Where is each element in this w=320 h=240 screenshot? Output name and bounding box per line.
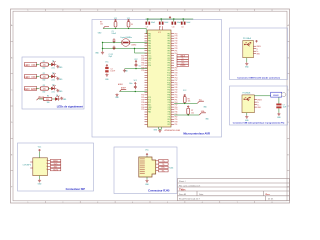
svg-text:R3: R3 — [43, 85, 45, 87]
wire SCL — [174, 102, 197, 104]
resistor R2 330 — [40, 75, 48, 78]
junction — [115, 28, 116, 29]
svg-text:TX+: TX+ — [162, 160, 165, 162]
power VCC — [146, 153, 148, 156]
op-amp U1 body (microcontroller ATMEGA2560) — [148, 30, 172, 127]
wire AREF — [120, 91, 148, 93]
svg-text:GND: GND — [148, 107, 151, 109]
junction — [183, 18, 184, 19]
svg-text:PE4: PE4 — [167, 43, 170, 45]
svg-text:PB0: PB0 — [148, 33, 151, 35]
section box: Connecteur USB male — [230, 86, 288, 125]
svg-text:RJ45: RJ45 — [169, 168, 173, 170]
svg-text:Sheet: /: Sheet: / — [179, 180, 186, 183]
svg-text:PC6: PC6 — [148, 99, 151, 101]
net label SCK — [50, 162, 60, 164]
svg-text:P97: P97 — [141, 60, 144, 62]
svg-text:C11: C11 — [181, 26, 184, 28]
title block — [178, 179, 290, 201]
svg-text:P00: P00 — [141, 107, 144, 109]
svg-text:D1: D1 — [52, 61, 54, 63]
svg-text:PB4: PB4 — [148, 43, 151, 45]
capacitor C9 100nF — [159, 22, 161, 25]
junction — [184, 103, 185, 104]
resistor R6 10k — [183, 97, 186, 103]
svg-text:PE5: PE5 — [167, 46, 170, 48]
capacitor C5 100nF — [135, 63, 138, 67]
net label D- — [177, 57, 188, 59]
svg-text:PH0: PH0 — [167, 85, 170, 87]
svg-text:LED_OK2: LED_OK2 — [24, 75, 38, 79]
svg-text:P73: P73 — [175, 109, 178, 111]
svg-text:P55: P55 — [175, 46, 178, 48]
ground — [115, 93, 118, 96]
junction — [173, 18, 174, 19]
svg-text:Rev:: Rev: — [266, 194, 271, 196]
wire AVCC — [160, 26, 163, 30]
svg-text:Connecteur ISP: Connecteur ISP — [66, 187, 86, 191]
wire VCC bus — [146, 18, 194, 20]
net label RX- — [159, 170, 169, 172]
svg-text:C8: C8 — [146, 26, 148, 28]
svg-text:P84: P84 — [141, 63, 144, 65]
svg-text:PJ3: PJ3 — [168, 109, 171, 111]
svg-text:P55: P55 — [141, 95, 144, 97]
capacitor C1 22pF — [113, 38, 116, 42]
svg-text:MISO: MISO — [53, 160, 58, 162]
sheet link MEMO — [271, 92, 282, 97]
net flag SDA — [199, 113, 206, 115]
svg-text:P00: P00 — [175, 33, 178, 35]
LED D4 — [55, 97, 58, 101]
wire RESET — [103, 28, 148, 33]
svg-text:PB5: PB5 — [148, 46, 151, 48]
section box: Connecteur USB femelle — [230, 28, 288, 80]
junction — [188, 114, 189, 115]
capacitor C2 22pF — [113, 46, 116, 50]
svg-text:PF0: PF0 — [168, 53, 171, 55]
svg-text:PE1: PE1 — [167, 36, 170, 38]
svg-text:P46: P46 — [175, 38, 178, 40]
wire — [246, 58, 248, 62]
wire SDA — [174, 114, 199, 116]
svg-text:RST: RST — [148, 53, 151, 55]
LED D2 — [51, 75, 54, 79]
junction — [128, 28, 129, 29]
net label VBUS — [177, 55, 188, 57]
svg-text:16MHz: 16MHz — [131, 45, 136, 47]
capacitor C8 100nF — [146, 22, 148, 25]
svg-text:D3: D3 — [52, 85, 54, 87]
svg-text:PG0: PG0 — [167, 72, 170, 74]
svg-text:P73: P73 — [175, 36, 178, 38]
svg-text:100nF: 100nF — [164, 22, 168, 24]
svg-text:Crystal 16MHz: Crystal 16MHz — [120, 36, 132, 39]
ground — [56, 77, 59, 80]
svg-text:D4: D4 — [56, 95, 58, 97]
junction — [147, 18, 148, 19]
svg-text:PE7: PE7 — [167, 50, 170, 52]
svg-text:D+: D+ — [257, 104, 259, 106]
capacitor C7 10uF (polarized) — [276, 104, 281, 106]
svg-text:100nF: 100nF — [151, 22, 155, 24]
svg-text:P71: P71 — [141, 65, 144, 67]
svg-text:RX-: RX- — [162, 170, 166, 172]
junction — [161, 18, 162, 19]
junction — [135, 68, 136, 69]
svg-text:P26: P26 — [141, 102, 144, 104]
svg-text:C3: C3 — [112, 31, 114, 33]
section box: Microcontroleur AVR — [92, 20, 222, 138]
svg-text:UGND: UGND — [180, 65, 186, 67]
svg-text:330: 330 — [42, 68, 45, 70]
U1 gnd below — [159, 127, 162, 129]
connector P2 USB-A body — [243, 41, 254, 58]
svg-text:PJ1: PJ1 — [168, 104, 171, 106]
svg-text:XT2: XT2 — [148, 60, 151, 62]
svg-text:MOSI: MOSI — [53, 169, 58, 171]
svg-text:VBUS: VBUS — [257, 99, 261, 101]
svg-text:XT1: XT1 — [148, 63, 151, 65]
connector J1 RJ45 body — [139, 157, 156, 177]
wire — [36, 76, 39, 78]
svg-text:ATMEGA2560-16AU: ATMEGA2560-16AU — [165, 129, 181, 132]
ground — [56, 89, 59, 92]
power VCC — [39, 149, 41, 152]
capacitor C10 100nF — [172, 22, 174, 25]
svg-text:SCL: SCL — [199, 100, 203, 102]
wire — [147, 19, 149, 22]
svg-text:P55: P55 — [175, 119, 178, 121]
wire — [39, 176, 41, 179]
svg-text:330: 330 — [42, 92, 45, 94]
svg-text:VBUS: VBUS — [256, 46, 260, 48]
svg-text:P46: P46 — [175, 112, 178, 114]
svg-text:P28: P28 — [175, 121, 178, 123]
net label MOSI — [50, 168, 60, 170]
svg-text:330: 330 — [47, 102, 50, 104]
svg-text:P68: P68 — [141, 68, 144, 70]
svg-text:PB1: PB1 — [148, 36, 151, 38]
svg-text:PG2: PG2 — [167, 77, 170, 79]
wire — [39, 98, 44, 100]
svg-text:P19: P19 — [175, 41, 178, 43]
svg-text:330: 330 — [43, 64, 46, 66]
wire to XTAL2 pin — [135, 49, 148, 54]
svg-text:P91: P91 — [175, 99, 178, 101]
svg-text:PF4: PF4 — [168, 63, 171, 65]
svg-text:P00: P00 — [175, 107, 178, 109]
svg-text:PF5: PF5 — [168, 65, 171, 67]
svg-text:LED_OK1: LED_OK1 — [24, 63, 38, 67]
net label RX+ — [159, 166, 169, 168]
svg-text:PG3: PG3 — [167, 80, 170, 82]
ground — [60, 97, 63, 100]
P2 pins — [253, 46, 256, 54]
svg-text:P73: P73 — [175, 85, 178, 87]
resistor R7 10k — [187, 108, 190, 114]
crystal Q1 16MHz — [122, 39, 130, 47]
resistor R5 10k — [114, 22, 117, 27]
svg-text:GND: GND — [148, 58, 151, 60]
svg-text:PH5: PH5 — [167, 97, 170, 99]
svg-text:LED_ERR: LED_ERR — [24, 87, 38, 91]
svg-text:TX-: TX- — [162, 164, 165, 166]
net label TX+ — [159, 160, 169, 162]
wire — [160, 19, 162, 22]
svg-text:PB6: PB6 — [148, 48, 151, 50]
svg-text:RX+: RX+ — [161, 167, 165, 169]
section box: Connecteur RJ45 — [114, 147, 177, 194]
wire XTAL2 — [103, 48, 148, 50]
junction — [134, 48, 135, 49]
svg-text:100nF: 100nF — [112, 33, 117, 35]
svg-text:C1 C2: C1 C2 — [109, 54, 114, 56]
svg-text:PF2: PF2 — [168, 58, 171, 60]
svg-text:IC1: IC1 — [158, 32, 161, 34]
connector P1 CON ISP 6 body — [33, 158, 48, 176]
net flag SCL — [197, 101, 204, 103]
svg-text:PB2: PB2 — [148, 38, 151, 40]
svg-text:P46: P46 — [175, 87, 178, 89]
net label MISO — [50, 159, 60, 161]
junction — [102, 42, 103, 43]
junction — [113, 42, 114, 43]
svg-text:CON ISP 6: CON ISP 6 — [23, 164, 31, 166]
svg-text:PC5: PC5 — [148, 97, 151, 99]
svg-text:PF6: PF6 — [168, 68, 171, 70]
capacitor C6 100nF — [134, 85, 137, 89]
svg-text:PG4: PG4 — [167, 82, 170, 84]
ground — [145, 179, 148, 182]
svg-text:PH4: PH4 — [167, 95, 170, 97]
svg-text:PF7: PF7 — [168, 70, 171, 72]
svg-text:P13: P13 — [141, 104, 144, 106]
power VCC — [169, 16, 171, 19]
wire gnd stub — [102, 43, 104, 52]
svg-text:330: 330 — [46, 99, 49, 101]
wire — [182, 19, 184, 22]
svg-text:P39: P39 — [141, 99, 144, 101]
wire VBUS to cap — [254, 96, 279, 104]
svg-text:PD0: PD0 — [148, 65, 151, 67]
svg-text:10uF: 10uF — [283, 107, 287, 109]
svg-text:PK2: PK2 — [167, 124, 170, 126]
svg-text:Microcontroleur AVR: Microcontroleur AVR — [183, 131, 210, 135]
svg-text:PK1: PK1 — [167, 121, 170, 123]
ground — [38, 179, 41, 182]
net label UID — [177, 62, 188, 64]
svg-text:P82: P82 — [175, 43, 178, 45]
svg-text:330: 330 — [42, 80, 45, 82]
wire — [36, 88, 39, 90]
svg-text:PF1: PF1 — [168, 55, 171, 57]
wire — [125, 68, 148, 70]
svg-text:PH1: PH1 — [167, 87, 170, 89]
svg-text:PJ5: PJ5 — [168, 114, 171, 116]
svg-text:330: 330 — [43, 88, 46, 90]
wire — [49, 64, 52, 66]
svg-text:R2: R2 — [43, 73, 45, 75]
wire — [36, 64, 39, 66]
junction — [135, 91, 136, 92]
wire — [49, 76, 52, 78]
svg-text:D2: D2 — [52, 73, 54, 75]
wire — [53, 98, 55, 100]
USB trident symbol — [244, 43, 250, 46]
svg-text:P82: P82 — [175, 117, 178, 119]
svg-text:PB3: PB3 — [148, 41, 151, 43]
svg-text:PE0: PE0 — [167, 33, 170, 35]
svg-text:P97: P97 — [141, 109, 144, 111]
svg-text:PJ4: PJ4 — [168, 112, 171, 114]
wire — [39, 152, 41, 158]
svg-text:PH6: PH6 — [167, 99, 170, 101]
net label LED_OK2 — [25, 75, 37, 79]
svg-text:R4: R4 — [47, 95, 49, 97]
svg-text:P28: P28 — [175, 72, 178, 74]
svg-text:R1: R1 — [43, 61, 45, 63]
svg-text:P00: P00 — [141, 58, 144, 60]
U1 left pins — [145, 34, 148, 125]
net label UGND — [177, 64, 188, 66]
wire — [49, 88, 52, 90]
svg-text:100nF: 100nF — [186, 22, 190, 24]
LED D3 — [51, 87, 54, 91]
ground — [123, 69, 126, 72]
USB trident symbol — [244, 98, 250, 101]
svg-text:P91: P91 — [175, 75, 178, 77]
svg-text:D+: D+ — [256, 51, 258, 53]
svg-text:P13: P13 — [141, 55, 144, 57]
svg-text:P19: P19 — [175, 90, 178, 92]
svg-text:P37: P37 — [175, 104, 178, 106]
power flag VCC — [256, 40, 258, 43]
svg-text:Size: A3: Size: A3 — [179, 193, 186, 196]
svg-text:P00: P00 — [175, 82, 178, 84]
svg-text:PB7: PB7 — [148, 50, 151, 52]
net label LED_OK1 — [25, 63, 37, 67]
svg-text:D5: D5 — [131, 24, 133, 26]
svg-text:PE6: PE6 — [167, 48, 170, 50]
svg-text:330: 330 — [43, 76, 46, 78]
svg-text:10k: 10k — [188, 101, 191, 103]
svg-text:P91: P91 — [175, 124, 178, 126]
svg-text:PF3: PF3 — [168, 60, 171, 62]
svg-text:10k: 10k — [100, 24, 103, 26]
svg-text:PC7: PC7 — [148, 102, 151, 104]
wire — [173, 19, 175, 22]
capacitor C11 100nF — [181, 22, 183, 25]
wire — [146, 177, 148, 179]
svg-text:P28: P28 — [175, 97, 178, 99]
svg-text:PJ6: PJ6 — [168, 117, 171, 119]
net label RST — [50, 165, 60, 167]
svg-text:PH3: PH3 — [167, 92, 170, 94]
svg-text:MEMO: MEMO — [273, 95, 279, 97]
P3 pins — [254, 100, 257, 108]
svg-text:PJ0: PJ0 — [168, 102, 171, 104]
svg-text:P82: P82 — [175, 68, 178, 70]
resistor R4 330 — [43, 97, 52, 100]
svg-text:KiCad E.D.A. kicad 4.0.7: KiCad E.D.A. kicad 4.0.7 — [179, 198, 200, 201]
net flag LED_B — [37, 98, 44, 100]
svg-text:22pF: 22pF — [109, 56, 113, 58]
svg-text:100n: 100n — [129, 83, 133, 85]
ground — [105, 73, 108, 76]
svg-text:P42: P42 — [141, 97, 144, 99]
svg-text:Connecteur RJ45: Connecteur RJ45 — [148, 189, 170, 193]
svg-text:P28: P28 — [175, 48, 178, 50]
ground — [245, 115, 248, 118]
svg-text:PE2: PE2 — [167, 38, 170, 40]
svg-text:VCC: VCC — [148, 55, 151, 57]
svg-text:P37: P37 — [175, 80, 178, 82]
svg-text:P55: P55 — [175, 70, 178, 72]
svg-text:10k: 10k — [191, 112, 194, 114]
svg-text:Title:: Title: — [179, 188, 186, 192]
svg-text:PJ2: PJ2 — [168, 107, 171, 109]
ground — [56, 65, 59, 68]
section box: LEDs de signalement — [22, 57, 84, 109]
svg-text:Connecteur USB male (peripheri: Connecteur USB male (peripherique et pro… — [233, 122, 285, 125]
svg-text:P55: P55 — [175, 95, 178, 97]
connector P3 USB-B body — [242, 95, 254, 113]
svg-text:LEDs de signalement: LEDs de signalement — [57, 105, 83, 109]
svg-text:C7: C7 — [283, 104, 285, 106]
ground — [101, 51, 104, 54]
svg-text:Id: 1/1: Id: 1/1 — [268, 199, 273, 201]
capacitor C4 100nF (polarized) — [105, 67, 108, 69]
svg-text:P91: P91 — [175, 50, 178, 52]
section box: Connecteur ISP — [18, 143, 94, 191]
svg-text:Connecteur USB femelle (mode c: Connecteur USB femelle (mode controleur) — [237, 76, 280, 79]
sheet border frame — [11, 9, 290, 203]
svg-text:PE3: PE3 — [167, 41, 170, 43]
net label D+ — [177, 59, 188, 61]
LED D1 — [51, 63, 54, 67]
wire XTAL1 — [103, 42, 148, 44]
svg-text:Date:: Date: — [199, 193, 204, 196]
svg-text:100nF: 100nF — [177, 22, 181, 24]
svg-text:P82: P82 — [175, 92, 178, 94]
svg-text:PG1: PG1 — [167, 75, 170, 77]
ground — [277, 113, 280, 116]
ground — [245, 62, 248, 65]
U1 right pins — [171, 34, 174, 125]
wire — [247, 108, 279, 115]
resistor R3 330 — [40, 87, 48, 90]
svg-text:100nF: 100nF — [110, 71, 115, 73]
net label TX- — [159, 163, 169, 165]
resistor R1 330 — [40, 63, 48, 66]
svg-text:PK0: PK0 — [167, 119, 170, 121]
svg-text:P55: P55 — [141, 70, 144, 72]
frame reference ticks — [11, 9, 290, 203]
svg-text:P2 USB-A: P2 USB-A — [243, 37, 252, 40]
wire — [146, 156, 148, 157]
diode D5 — [127, 22, 130, 27]
svg-text:C10: C10 — [172, 26, 175, 28]
svg-text:P3 USB-B: P3 USB-B — [243, 93, 252, 95]
svg-text:P64: P64 — [175, 77, 178, 79]
net label LED_ERR — [25, 87, 37, 91]
svg-text:PH2: PH2 — [167, 90, 170, 92]
